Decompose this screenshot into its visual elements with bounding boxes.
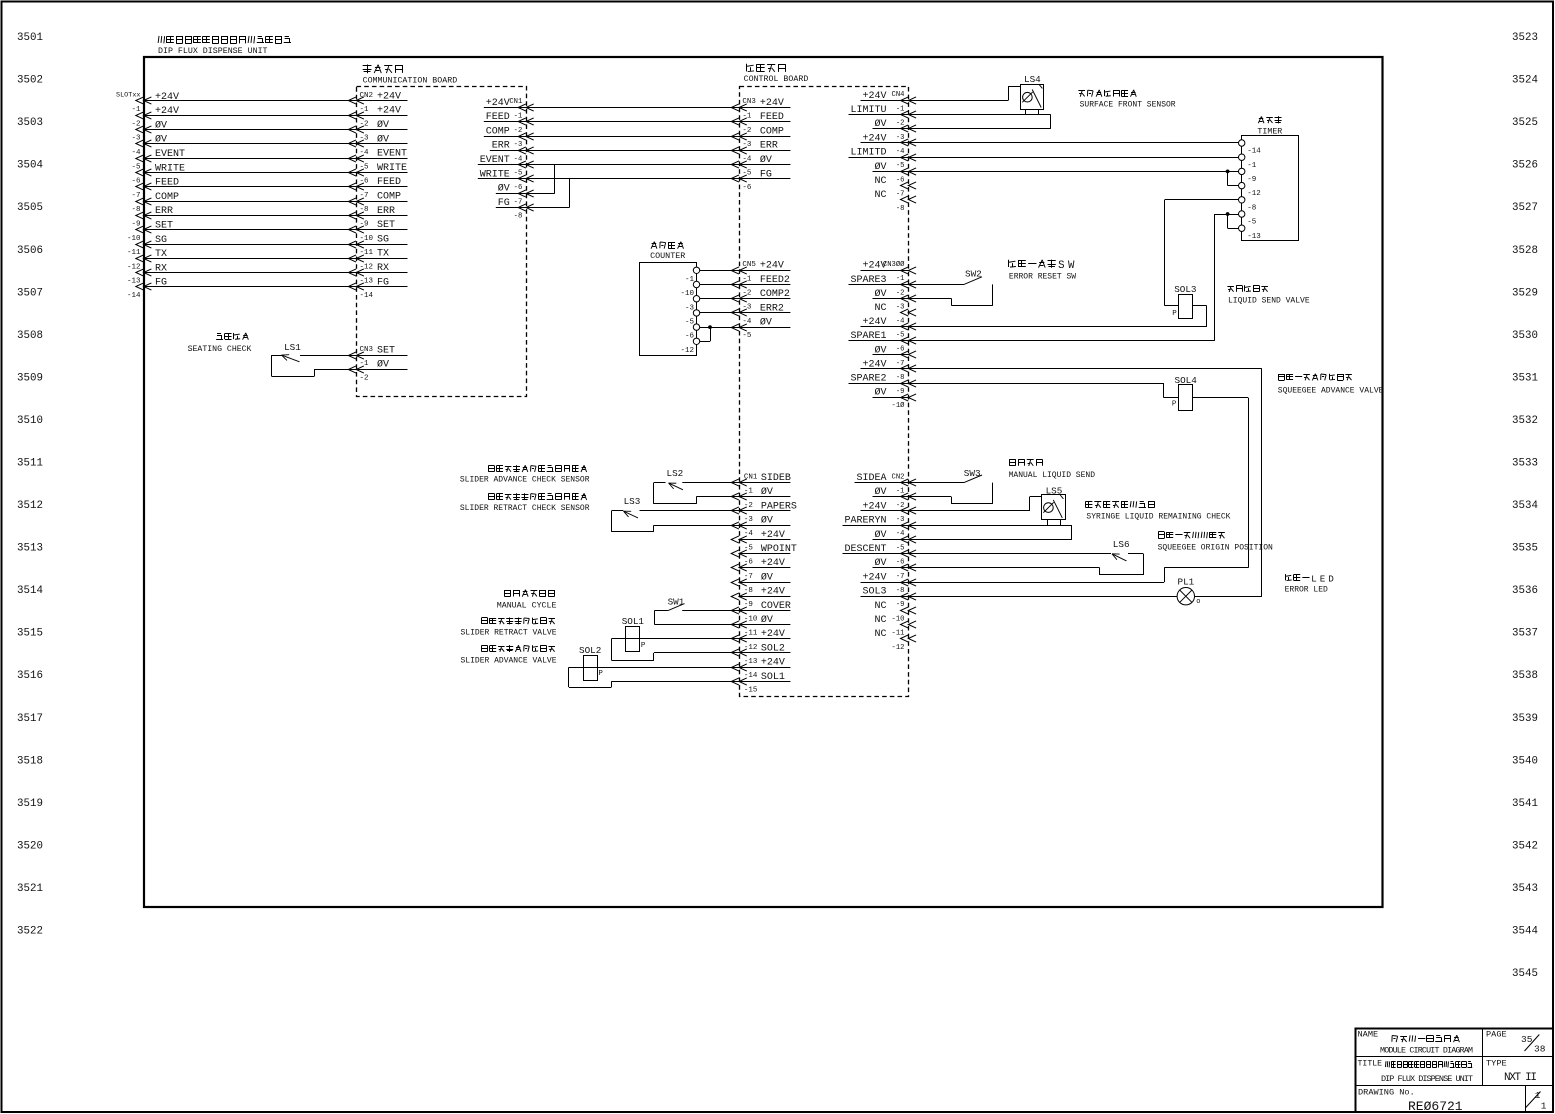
svg-text:FG: FG xyxy=(155,278,167,289)
svg-text:+24V: +24V xyxy=(155,106,179,117)
svg-text:-14: -14 xyxy=(1247,148,1261,156)
svg-text:-14: -14 xyxy=(127,292,141,300)
svg-text:-5: -5 xyxy=(360,163,370,171)
svg-text:-4: -4 xyxy=(742,318,752,326)
svg-text:DRAWING No.: DRAWING No. xyxy=(1358,1088,1415,1098)
svg-text:SOL2: SOL2 xyxy=(579,645,601,656)
svg-text:-5: -5 xyxy=(896,332,905,340)
svg-text:3515: 3515 xyxy=(17,628,43,640)
svg-text:E: E xyxy=(1320,573,1326,584)
svg-text:P: P xyxy=(598,670,603,678)
svg-text:+24V: +24V xyxy=(761,587,785,598)
svg-text:3511: 3511 xyxy=(17,458,43,470)
svg-text:-13: -13 xyxy=(127,278,141,286)
svg-text:SQUEEGEE ADVANCE VALVE: SQUEEGEE ADVANCE VALVE xyxy=(1278,387,1384,396)
svg-text:NC: NC xyxy=(874,303,886,314)
svg-text:COUNTER: COUNTER xyxy=(650,251,685,261)
svg-text:-5: -5 xyxy=(744,544,754,552)
svg-text:-6: -6 xyxy=(514,184,523,192)
svg-text:S: S xyxy=(1058,260,1064,272)
svg-text:-1: -1 xyxy=(896,105,905,113)
svg-text:-9: -9 xyxy=(896,601,905,609)
svg-text:LS2: LS2 xyxy=(667,468,684,479)
svg-text:-11: -11 xyxy=(744,630,758,638)
svg-text:3516: 3516 xyxy=(17,670,43,682)
svg-text:3522: 3522 xyxy=(17,926,43,938)
svg-text:+24V: +24V xyxy=(761,658,785,669)
svg-text:-10: -10 xyxy=(892,615,905,623)
svg-text:-1: -1 xyxy=(360,360,370,368)
svg-text:3542: 3542 xyxy=(1512,840,1538,852)
svg-text:-1: -1 xyxy=(896,275,905,283)
svg-text:SLIDER RETRACT CHECK SENSOR: SLIDER RETRACT CHECK SENSOR xyxy=(460,504,590,513)
svg-text:ØV: ØV xyxy=(761,515,773,527)
svg-text:PAGE: PAGE xyxy=(1486,1030,1507,1040)
svg-text:-8: -8 xyxy=(896,374,905,382)
svg-text:CN4: CN4 xyxy=(892,91,905,99)
svg-text:-4: -4 xyxy=(131,149,141,157)
svg-text:-1: -1 xyxy=(896,488,905,496)
svg-text:3527: 3527 xyxy=(1512,202,1538,214)
svg-text:-9: -9 xyxy=(1247,176,1256,184)
svg-text:-6: -6 xyxy=(131,178,141,186)
svg-text:CN3ØØ: CN3ØØ xyxy=(883,260,905,269)
svg-text:-11: -11 xyxy=(360,249,374,257)
svg-text:-7: -7 xyxy=(514,198,523,206)
svg-text:3520: 3520 xyxy=(17,840,43,852)
svg-text:-3: -3 xyxy=(896,134,905,142)
svg-text:COMP: COMP xyxy=(486,126,510,137)
svg-text:3506: 3506 xyxy=(17,245,43,257)
svg-text:-4: -4 xyxy=(514,155,523,163)
svg-text:3529: 3529 xyxy=(1512,287,1538,299)
svg-text:-4: -4 xyxy=(896,530,905,538)
svg-text:SLIDER RETRACT VALVE: SLIDER RETRACT VALVE xyxy=(460,629,556,638)
svg-text:-11: -11 xyxy=(892,630,905,638)
svg-text:TYPE: TYPE xyxy=(1486,1059,1507,1069)
svg-text:-1: -1 xyxy=(1247,162,1257,170)
svg-text:SYRINGE LIQUID REMAINING CHECK: SYRINGE LIQUID REMAINING CHECK xyxy=(1086,512,1230,521)
svg-text:3523: 3523 xyxy=(1512,32,1538,44)
svg-text:LIQUID SEND VALVE: LIQUID SEND VALVE xyxy=(1228,296,1310,305)
svg-text:EVENT: EVENT xyxy=(155,149,185,160)
svg-text:SOL4: SOL4 xyxy=(1175,375,1198,386)
svg-text:3530: 3530 xyxy=(1512,330,1538,342)
svg-text:SLIDER ADVANCE CHECK SENSOR: SLIDER ADVANCE CHECK SENSOR xyxy=(460,476,590,485)
svg-text:-1: -1 xyxy=(360,106,370,114)
svg-text:3507: 3507 xyxy=(17,287,43,299)
svg-text:-2: -2 xyxy=(742,127,751,135)
svg-text:-9: -9 xyxy=(896,388,905,396)
svg-text:-6: -6 xyxy=(685,333,695,341)
svg-text:NC: NC xyxy=(874,190,886,201)
svg-text:SEATING CHECK: SEATING CHECK xyxy=(188,345,252,354)
svg-text:-6: -6 xyxy=(896,346,905,354)
svg-text:LS6: LS6 xyxy=(1113,539,1130,550)
svg-text:COMP: COMP xyxy=(155,192,179,203)
svg-text:-3: -3 xyxy=(685,304,695,312)
svg-text:-7: -7 xyxy=(131,192,140,200)
svg-text:LS1: LS1 xyxy=(284,342,301,353)
svg-text:TIMER: TIMER xyxy=(1257,128,1282,137)
svg-text:ØV: ØV xyxy=(874,387,886,399)
svg-text:TX: TX xyxy=(155,249,167,260)
svg-text:DIP FLUX DISPENSE UNIT: DIP FLUX DISPENSE UNIT xyxy=(1381,1074,1473,1084)
svg-text:3524: 3524 xyxy=(1512,75,1538,87)
svg-text:NXT II: NXT II xyxy=(1504,1072,1537,1084)
svg-text:3536: 3536 xyxy=(1512,585,1538,597)
svg-text:-8: -8 xyxy=(1247,204,1256,212)
svg-text:-12: -12 xyxy=(1247,190,1261,198)
svg-text:ØV: ØV xyxy=(155,134,167,146)
svg-text:ØV: ØV xyxy=(377,359,389,371)
svg-text:3532: 3532 xyxy=(1512,415,1538,427)
svg-text:TITLE: TITLE xyxy=(1358,1060,1383,1069)
svg-text:LS4: LS4 xyxy=(1024,74,1041,85)
svg-text:-12: -12 xyxy=(744,644,758,652)
svg-text:3514: 3514 xyxy=(17,585,43,597)
svg-text:NAME: NAME xyxy=(1358,1030,1379,1040)
svg-text:CN3: CN3 xyxy=(742,98,756,106)
svg-text:-8: -8 xyxy=(360,206,369,214)
svg-text:-2: -2 xyxy=(514,127,523,135)
svg-text:3541: 3541 xyxy=(1512,798,1538,810)
svg-text:-3: -3 xyxy=(742,141,752,149)
svg-text:3517: 3517 xyxy=(17,713,43,725)
svg-text:-8: -8 xyxy=(896,587,905,595)
svg-text:SQUEEGEE ORIGIN POSITION: SQUEEGEE ORIGIN POSITION xyxy=(1158,543,1273,552)
svg-text:DIP FLUX DISPENSE UNIT: DIP FLUX DISPENSE UNIT xyxy=(158,47,268,56)
svg-text:-1: -1 xyxy=(131,106,141,114)
svg-text:-7: -7 xyxy=(744,573,753,581)
svg-text:-5: -5 xyxy=(685,319,695,327)
svg-text:L: L xyxy=(1311,573,1317,584)
svg-text:ERROR LED: ERROR LED xyxy=(1285,585,1328,594)
svg-text:-14: -14 xyxy=(360,292,374,300)
svg-text:-1: -1 xyxy=(514,113,523,121)
svg-text:-4: -4 xyxy=(742,155,752,163)
svg-text:3534: 3534 xyxy=(1512,500,1538,512)
svg-text:-8: -8 xyxy=(744,587,753,595)
svg-text:-2: -2 xyxy=(896,120,905,128)
svg-text:3537: 3537 xyxy=(1512,628,1538,640)
svg-text:-6: -6 xyxy=(896,176,905,184)
svg-text:SW3: SW3 xyxy=(964,468,981,479)
svg-text:-8: -8 xyxy=(131,206,140,214)
svg-text:ØV: ØV xyxy=(760,317,772,329)
svg-text:-12: -12 xyxy=(892,644,905,652)
svg-text:3531: 3531 xyxy=(1512,372,1538,384)
svg-text:CONTROL BOARD: CONTROL BOARD xyxy=(744,75,809,84)
svg-text:3543: 3543 xyxy=(1512,883,1538,895)
svg-text:D: D xyxy=(1328,573,1334,584)
svg-text:P: P xyxy=(641,642,646,650)
svg-text:-6: -6 xyxy=(744,559,754,567)
svg-text:-9: -9 xyxy=(360,221,369,229)
svg-text:3512: 3512 xyxy=(17,500,43,512)
svg-text:-12: -12 xyxy=(680,347,694,355)
svg-text:ØV: ØV xyxy=(155,119,167,131)
svg-text:LS3: LS3 xyxy=(624,496,641,507)
svg-text:-5: -5 xyxy=(514,170,523,178)
svg-text:SOL1: SOL1 xyxy=(622,616,645,627)
svg-text:CN1: CN1 xyxy=(509,98,522,106)
svg-text:-1: -1 xyxy=(742,113,752,121)
svg-text:-3: -3 xyxy=(514,141,523,149)
svg-text:-13: -13 xyxy=(360,278,374,286)
svg-text:PARERYN: PARERYN xyxy=(844,516,886,527)
svg-text:-13: -13 xyxy=(744,658,758,666)
svg-text:3510: 3510 xyxy=(17,415,43,427)
svg-text:W: W xyxy=(1068,260,1075,272)
svg-text:-2: -2 xyxy=(896,289,905,297)
svg-text:CN2: CN2 xyxy=(892,473,905,481)
svg-text:-3: -3 xyxy=(896,303,905,311)
svg-text:SG: SG xyxy=(377,234,389,245)
svg-text:-5: -5 xyxy=(742,332,752,340)
svg-text:-3: -3 xyxy=(742,304,752,312)
svg-text:MANUAL CYCLE: MANUAL CYCLE xyxy=(497,602,557,611)
svg-text:CN1: CN1 xyxy=(744,473,758,481)
svg-text:-15: -15 xyxy=(744,686,758,694)
svg-text:CN3: CN3 xyxy=(360,346,374,354)
svg-text:-9: -9 xyxy=(744,601,753,609)
svg-text:COMP: COMP xyxy=(377,192,401,203)
svg-text:SW1: SW1 xyxy=(668,597,685,608)
svg-text:SLOTxx: SLOTxx xyxy=(116,92,140,100)
svg-text:-8: -8 xyxy=(896,205,905,213)
svg-text:3513: 3513 xyxy=(17,543,43,555)
svg-text:COMP: COMP xyxy=(760,126,784,137)
svg-text:-10: -10 xyxy=(744,615,758,623)
svg-text:-3: -3 xyxy=(896,516,905,524)
svg-text:3518: 3518 xyxy=(17,755,43,767)
svg-text:-9: -9 xyxy=(131,221,140,229)
svg-text:-7: -7 xyxy=(896,360,905,368)
svg-text:-10: -10 xyxy=(360,235,374,243)
svg-text:-1Ø: -1Ø xyxy=(892,401,906,410)
svg-text:3525: 3525 xyxy=(1512,117,1538,129)
svg-text:CN2: CN2 xyxy=(360,92,374,100)
svg-text:P: P xyxy=(1172,401,1177,409)
svg-text:3539: 3539 xyxy=(1512,713,1538,725)
svg-text:+24V: +24V xyxy=(155,92,179,103)
svg-text:ERR: ERR xyxy=(155,206,173,217)
svg-text:P: P xyxy=(1172,310,1177,318)
svg-text:-12: -12 xyxy=(360,263,374,271)
svg-text:SET: SET xyxy=(155,221,173,232)
svg-text:WRITE: WRITE xyxy=(155,163,185,174)
svg-text:-2: -2 xyxy=(742,290,751,298)
svg-text:-7: -7 xyxy=(896,191,905,199)
svg-text:-4: -4 xyxy=(896,318,905,326)
svg-text:-5: -5 xyxy=(896,162,905,170)
svg-text:ØV: ØV xyxy=(761,571,773,583)
svg-text:SW2: SW2 xyxy=(965,268,982,279)
svg-text:1: 1 xyxy=(1541,1100,1547,1111)
svg-text:3528: 3528 xyxy=(1512,245,1538,257)
svg-text:3503: 3503 xyxy=(17,117,43,129)
svg-text:EVENT: EVENT xyxy=(377,149,407,160)
svg-text:-1: -1 xyxy=(742,275,752,283)
svg-text:-2: -2 xyxy=(744,502,753,510)
svg-text:-3: -3 xyxy=(360,135,370,143)
svg-text:MANUAL LIQUID SEND: MANUAL LIQUID SEND xyxy=(1009,471,1096,480)
svg-text:SOL3: SOL3 xyxy=(862,587,886,598)
svg-text:REØ6721: REØ6721 xyxy=(1408,1099,1463,1114)
svg-text:-7: -7 xyxy=(360,192,369,200)
svg-text:NC: NC xyxy=(874,629,886,640)
svg-text:-2: -2 xyxy=(360,120,369,128)
svg-text:3533: 3533 xyxy=(1512,458,1538,470)
svg-text:3502: 3502 xyxy=(17,75,43,87)
svg-text:3504: 3504 xyxy=(17,160,43,172)
svg-text:3544: 3544 xyxy=(1512,926,1538,938)
svg-text:o: o xyxy=(1196,598,1200,606)
svg-text:NC: NC xyxy=(874,615,886,626)
svg-text:-4: -4 xyxy=(896,148,905,156)
svg-text:-1: -1 xyxy=(685,276,695,284)
svg-text:3526: 3526 xyxy=(1512,160,1538,172)
svg-text:SPARE2: SPARE2 xyxy=(850,374,886,385)
svg-text:FEED: FEED xyxy=(155,178,179,189)
svg-text:3508: 3508 xyxy=(17,330,43,342)
svg-text:MODULE CIRCUIT DIAGRAM: MODULE CIRCUIT DIAGRAM xyxy=(1380,1047,1473,1056)
svg-text:+24V: +24V xyxy=(862,572,886,583)
svg-text:-2: -2 xyxy=(360,374,369,382)
svg-text:-5: -5 xyxy=(131,163,141,171)
svg-text:ERROR RESET SW: ERROR RESET SW xyxy=(1009,273,1076,282)
svg-text:-2: -2 xyxy=(896,502,905,510)
svg-text:-10: -10 xyxy=(680,290,694,298)
svg-text:SLIDER ADVANCE VALVE: SLIDER ADVANCE VALVE xyxy=(460,656,556,665)
svg-text:CN5: CN5 xyxy=(742,261,756,269)
svg-text:3535: 3535 xyxy=(1512,543,1538,555)
svg-text:-6: -6 xyxy=(896,559,905,567)
svg-text:RX: RX xyxy=(155,263,167,274)
svg-text:-4: -4 xyxy=(360,149,370,157)
svg-text:-12: -12 xyxy=(127,263,141,271)
svg-text:3509: 3509 xyxy=(17,372,43,384)
svg-text:38: 38 xyxy=(1534,1044,1546,1055)
svg-text:3501: 3501 xyxy=(17,32,43,44)
svg-text:3519: 3519 xyxy=(17,798,43,810)
svg-text:3538: 3538 xyxy=(1512,670,1538,682)
svg-text:PL1: PL1 xyxy=(1178,576,1195,587)
svg-text:SET: SET xyxy=(377,346,395,357)
svg-text:-5: -5 xyxy=(742,170,752,178)
svg-text:NC: NC xyxy=(874,601,886,612)
svg-text:SURFACE FRONT SENSOR: SURFACE FRONT SENSOR xyxy=(1080,101,1176,110)
svg-text:3505: 3505 xyxy=(17,202,43,214)
svg-text:-3: -3 xyxy=(131,135,141,143)
svg-text:-3: -3 xyxy=(744,516,754,524)
svg-text:LS5: LS5 xyxy=(1046,485,1063,496)
svg-text:-13: -13 xyxy=(1247,233,1261,241)
svg-text:-2: -2 xyxy=(131,120,140,128)
svg-text:-11: -11 xyxy=(127,249,141,257)
svg-text:-4: -4 xyxy=(744,530,754,538)
svg-text:-7: -7 xyxy=(896,573,905,581)
svg-text:3521: 3521 xyxy=(17,883,43,895)
svg-text:3540: 3540 xyxy=(1512,755,1538,767)
svg-text:-6: -6 xyxy=(360,178,370,186)
svg-text:NC: NC xyxy=(874,176,886,187)
svg-text:-8: -8 xyxy=(514,213,523,221)
svg-text:ØV: ØV xyxy=(498,183,510,195)
svg-text:COMMUNICATION BOARD: COMMUNICATION BOARD xyxy=(363,77,458,86)
svg-text:-10: -10 xyxy=(127,235,141,243)
svg-text:-5: -5 xyxy=(1247,219,1257,227)
svg-text:3545: 3545 xyxy=(1512,968,1538,980)
svg-text:-5: -5 xyxy=(896,544,905,552)
svg-text:SOL3: SOL3 xyxy=(1174,284,1196,295)
svg-text:-1: -1 xyxy=(744,488,754,496)
svg-text:SG: SG xyxy=(155,235,167,246)
svg-text:LIMITD: LIMITD xyxy=(850,148,886,159)
svg-text:-14: -14 xyxy=(744,672,758,680)
svg-text:-6: -6 xyxy=(742,184,752,192)
